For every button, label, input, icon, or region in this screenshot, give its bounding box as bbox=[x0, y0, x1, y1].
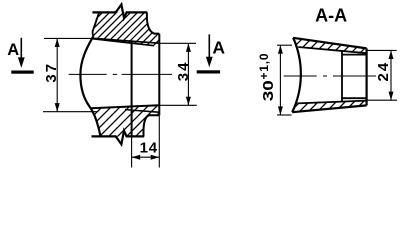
hatch A-A top wall bbox=[285, 31, 382, 56]
dim 37 extension bottom bbox=[43, 111, 98, 113]
svg-text:14: 14 bbox=[140, 140, 158, 157]
outer arc (mouth of bell) bbox=[80, 36, 100, 136]
top-right step with fillet bbox=[147, 12, 159, 33]
top slant (inner cone edge) bbox=[93, 38, 159, 43]
dim 24 extension bottom bbox=[367, 99, 397, 101]
dim 34 line with arrows bbox=[187, 43, 189, 105]
section cut thick bar right bbox=[197, 70, 220, 73]
centerline of A-A view bbox=[284, 75, 377, 77]
dim 37 line with arrows bbox=[56, 38, 58, 111]
A-A bore shoulder vertical bbox=[341, 51, 343, 102]
section cut thick bar left bbox=[11, 71, 33, 74]
bottom outer line with break zigzag bbox=[92, 131, 145, 145]
hatch A-A bottom wall bbox=[284, 93, 381, 118]
A-A bore bottom edge bbox=[342, 97, 367, 99]
dim 14 extension left bbox=[131, 136, 133, 167]
top outer line with break zigzag bbox=[92, 5, 147, 19]
A-A inner top slant bbox=[298, 47, 366, 53]
dim 14 line with arrows bbox=[132, 156, 160, 158]
A-A bore top edge bbox=[342, 54, 367, 56]
inner boss left vertical bbox=[131, 41, 133, 136]
svg-text:30: 30 bbox=[260, 80, 277, 101]
dim 14 extension right bbox=[158, 115, 160, 167]
dim 30 extension top bbox=[277, 44, 292, 46]
A-A inner bottom slant bbox=[297, 101, 366, 104]
outer cone silhouette in bottom break bbox=[125, 110, 159, 113]
svg-text:24: 24 bbox=[375, 61, 392, 82]
dim 24 line with arrows bbox=[390, 50, 392, 100]
A-A outer top slant bbox=[293, 38, 367, 49]
svg-text:A-A: A-A bbox=[315, 5, 347, 25]
outer cone silhouette in top break bbox=[93, 39, 154, 46]
svg-text:A: A bbox=[7, 41, 19, 59]
svg-text:37: 37 bbox=[43, 62, 60, 83]
section arrow right: shaft and head bbox=[208, 34, 210, 58]
svg-text:34: 34 bbox=[175, 61, 192, 82]
svg-text:+1,0: +1,0 bbox=[257, 53, 271, 80]
break boundary top bbox=[93, 13, 99, 36]
bottom slant (inner cone edge) bbox=[91, 105, 159, 108]
section arrow left: shaft and head bbox=[20, 38, 22, 59]
dim 34 extension bottom bbox=[159, 104, 197, 106]
dim 30 extension bottom bbox=[277, 114, 292, 116]
A-A left concave arc bbox=[292, 38, 301, 112]
A-A outer bottom slant bbox=[292, 105, 366, 112]
bottom-right step with fillet bbox=[144, 115, 160, 136]
hatch top broken-out section bbox=[60, 8, 191, 48]
A-A right edge bbox=[366, 48, 368, 105]
dim 30 line with arrows bbox=[279, 45, 281, 115]
dim 37 extension top bbox=[44, 37, 97, 39]
svg-text:A: A bbox=[212, 38, 225, 58]
dim 34 extension top bbox=[159, 42, 196, 44]
centerline of left view bbox=[69, 73, 172, 75]
hatch bottom broken-out section bbox=[60, 100, 190, 140]
right vertical edge of boss bbox=[158, 34, 160, 116]
dim 24 extension top bbox=[367, 49, 397, 51]
